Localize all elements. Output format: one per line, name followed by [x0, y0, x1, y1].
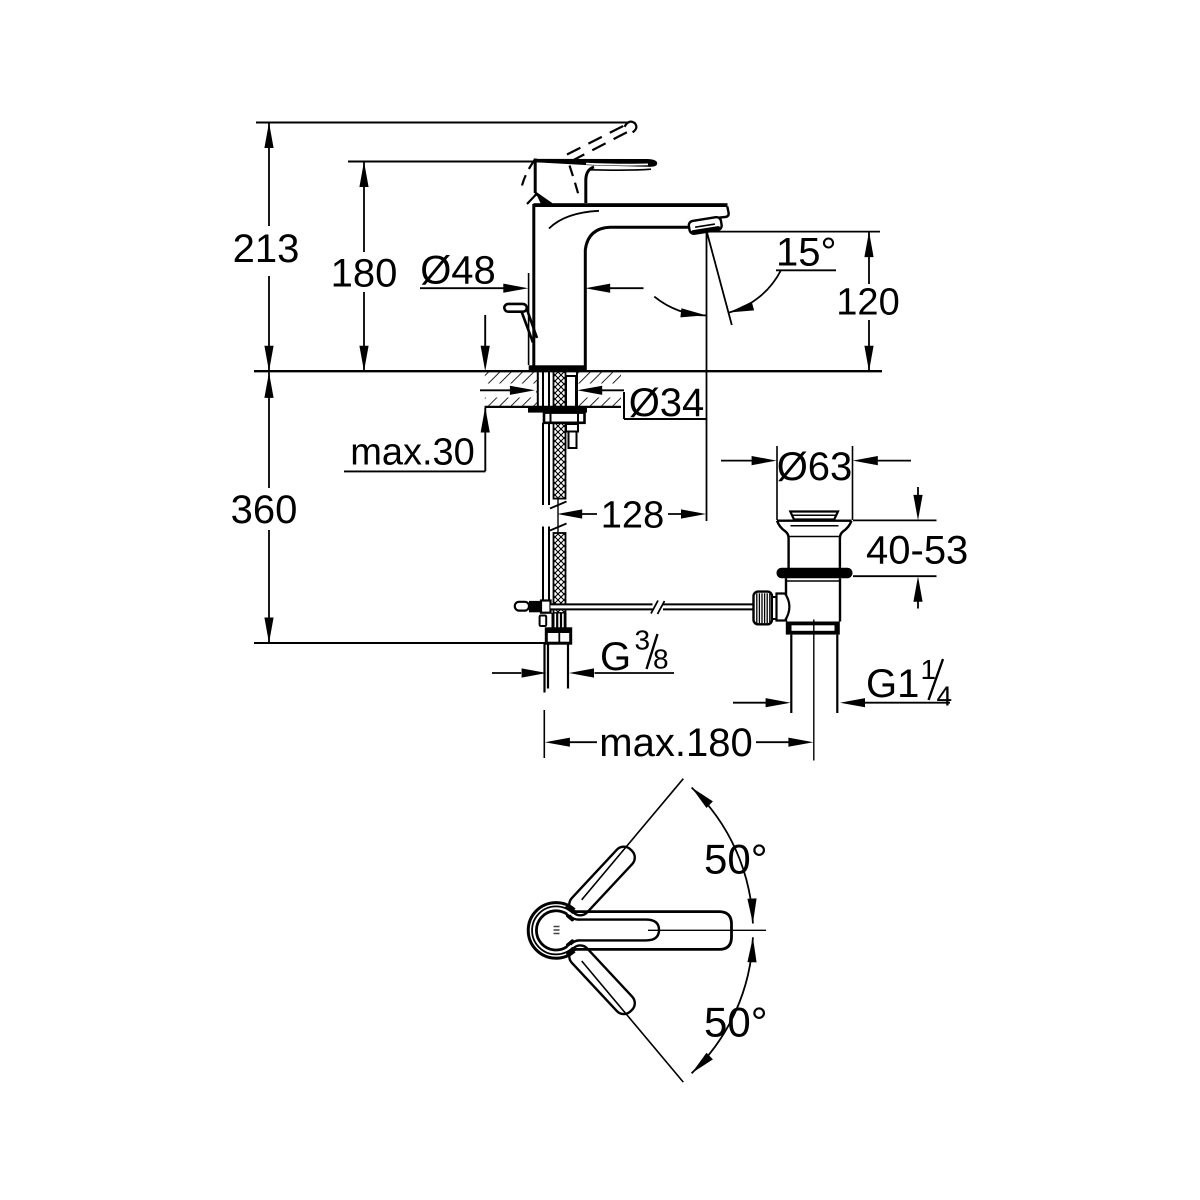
- plan: 50° ray lower: [582, 961, 684, 1082]
- dimension 180 arrow down: [359, 346, 368, 372]
- raised handle dashed lower-left tick: [527, 194, 537, 204]
- horizontal linkage rod left part: [551, 604, 755, 609]
- drain pull rod knob: [522, 308, 538, 342]
- plan: 50° ray upper: [582, 779, 684, 900]
- svg-text:40-53: 40-53: [866, 529, 968, 573]
- dimension 120 line: [868, 232, 870, 372]
- stud centerline at break: [557, 499, 559, 533]
- svg-text:180: 180: [331, 252, 398, 296]
- knob stub with ball end: [777, 594, 790, 621]
- raised handle dashed outline lower: [571, 129, 634, 162]
- svg-text:Ø63: Ø63: [777, 445, 853, 489]
- drain tailpipe: [791, 635, 837, 713]
- svg-text:G1: G1: [866, 662, 919, 706]
- svg-text:15°: 15°: [776, 231, 837, 275]
- svg-text:128: 128: [601, 495, 664, 537]
- hatch clearance bands: [470, 384, 536, 398]
- cartridge cover left edge: [534, 159, 537, 194]
- lever underside line: [590, 168, 651, 171]
- plan: handle outline: [577, 912, 732, 950]
- deck underside line: [485, 406, 621, 408]
- plan: escutcheon outer ring: [528, 903, 574, 959]
- faucet spout tip face: [719, 207, 728, 218]
- dimension 180 line: [363, 162, 365, 372]
- mounting washer plate: [528, 407, 587, 413]
- plan: logo mark: [554, 927, 560, 934]
- plan: 50° arc lower: [692, 937, 753, 1073]
- TOP VIEW: [528, 779, 766, 1082]
- faucet spout underside outline: [693, 218, 719, 227]
- drain valve body: [786, 578, 840, 621]
- drain rubber seal ring: [777, 568, 853, 578]
- faucet shank wall right: [576, 371, 578, 407]
- threaded stud lower segment: [554, 533, 566, 613]
- linkage break marks: [651, 601, 665, 615]
- Ø63 extension lines: [777, 446, 853, 520]
- SIDE VIEW: [254, 122, 950, 761]
- 15° angle arc right: [729, 270, 782, 313]
- 15° angle arc left: [654, 297, 707, 316]
- faucet body top band: [534, 203, 728, 207]
- dimension max.30 leader: [344, 315, 485, 471]
- dimension Ø48 leader and arrows: [420, 287, 644, 289]
- pull rod tube upper: [543, 371, 549, 601]
- plan: handle dome: [536, 911, 567, 950]
- svg-text:50°: 50°: [704, 999, 768, 1046]
- svg-text:G: G: [600, 635, 631, 679]
- cartridge cover slant edge: [535, 193, 551, 204]
- Ø34 label box: [624, 392, 706, 419]
- svg-text:max.180: max.180: [599, 721, 752, 765]
- wire: handle rest level reference line: [348, 161, 540, 163]
- dimension 128 line: [582, 513, 682, 515]
- svg-text:3: 3: [635, 625, 651, 656]
- dimension Ø63 line: [721, 460, 911, 462]
- spout outlet extension line (vertical): [706, 233, 708, 522]
- faucet body left edge: [532, 204, 535, 366]
- drain top flange (trumpet): [777, 520, 852, 522]
- dimension 360 arrow up: [264, 372, 273, 398]
- hose adapter (threaded): [552, 613, 567, 629]
- plan: center line: [648, 929, 766, 931]
- dimension 360 line: [268, 372, 270, 643]
- 15° label underline: [776, 269, 836, 271]
- lever neck: [586, 167, 594, 203]
- hose nut: [546, 629, 570, 643]
- plan: escutcheon inner ring: [532, 906, 573, 954]
- plan: indicator tick lower: [568, 941, 573, 945]
- spout outlet reference line: [707, 231, 880, 233]
- raised handle dashed neck: [570, 166, 580, 199]
- knurled adjuster knob: [754, 592, 773, 625]
- raised handle tip: [625, 122, 637, 133]
- max.180 left extension line: [543, 710, 545, 758]
- dimension G1 1/4 line: [733, 702, 950, 704]
- plan: rotated handle blade upper 50°: [565, 843, 638, 919]
- mounting sleeve: [566, 376, 576, 407]
- horizontal linkage rod right part: [663, 604, 755, 609]
- lever blade (solid): [535, 159, 657, 167]
- deck cross-section hatching left: [485, 372, 538, 407]
- svg-text:4: 4: [937, 681, 953, 712]
- mounting nut: [544, 413, 585, 423]
- G3/8 slash: [647, 634, 658, 669]
- drain centerline: [813, 620, 815, 761]
- dimension Ø48 extension lines: [529, 273, 585, 365]
- dimension G3/8 line: [492, 672, 674, 674]
- dimension 213 line: [268, 123, 270, 372]
- wire: top reference line (handle raised level): [256, 122, 630, 124]
- plan: 50° arc upper: [692, 788, 753, 924]
- supply hose: [545, 643, 569, 692]
- aerator: [688, 216, 722, 234]
- G1 1/4 slash: [929, 659, 944, 700]
- break mark ticks: [550, 502, 567, 531]
- svg-text:Ø48: Ø48: [420, 249, 496, 293]
- 15° spray line: [707, 233, 732, 326]
- dimension 40-53 reference lines: [853, 520, 937, 576]
- wire: deck / counter top line: [254, 370, 882, 372]
- linkage joint block (dark): [529, 601, 541, 612]
- drain linkage pivot rod: [515, 602, 529, 611]
- raised handle dashed back arc: [522, 158, 537, 186]
- check valve fitting: [566, 424, 578, 448]
- plan: lever top-surface inner outline: [580, 920, 659, 941]
- drain plug cap: [790, 512, 838, 520]
- max.30 arrow up: [481, 407, 490, 433]
- dimension 360 arrow down: [264, 618, 273, 644]
- svg-text:max.30: max.30: [350, 432, 475, 474]
- wire: bottom reference line (hose end level): [254, 642, 572, 644]
- svg-text:1: 1: [921, 654, 937, 685]
- dimension 213 arrow down: [264, 346, 273, 372]
- svg-text:Ø34: Ø34: [629, 381, 705, 425]
- svg-text:8: 8: [653, 644, 669, 675]
- tailpiece nut: [786, 622, 840, 635]
- svg-text:50°: 50°: [704, 836, 768, 883]
- plan: rotated handle blade lower 50°: [565, 942, 638, 1018]
- dimension 180 arrow up: [359, 162, 368, 188]
- faucet base plate: [529, 365, 587, 371]
- linkage joint clevis: [541, 601, 551, 613]
- pull rod lower end: [540, 616, 547, 627]
- faucet body highlight curve: [549, 211, 599, 229]
- deck cross-section hatching right: [578, 372, 622, 407]
- plan: indicator tick upper: [568, 916, 573, 920]
- raised handle dashed outline upper: [567, 123, 630, 155]
- dimension Ø34 arrows: [480, 389, 624, 391]
- dimension 213 arrow up: [264, 123, 273, 149]
- knob collar: [772, 597, 777, 619]
- lever blade split line: [586, 164, 648, 165]
- svg-text:120: 120: [836, 282, 899, 324]
- max.30 arrow down: [481, 346, 490, 372]
- faucet shank wall left: [537, 371, 539, 407]
- cartridge cover shadow wedge: [537, 195, 553, 205]
- dimension max.180 line: [570, 741, 790, 743]
- threaded mounting stud upper segment: [554, 371, 566, 498]
- svg-text:213: 213: [233, 227, 300, 271]
- svg-text:360: 360: [231, 488, 298, 532]
- 40-53 arrows: [917, 487, 919, 609]
